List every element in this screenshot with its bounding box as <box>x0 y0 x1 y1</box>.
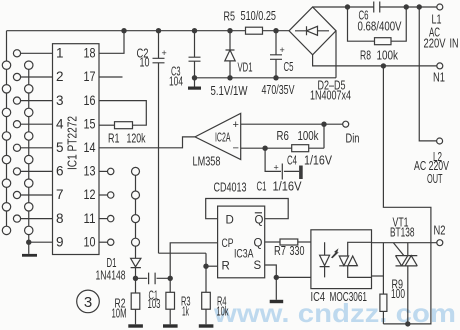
resistor R3 <box>169 278 171 292</box>
svg-text:+: + <box>162 48 167 58</box>
terminal N2 <box>437 240 443 246</box>
IC3 CD4013 body <box>218 206 265 278</box>
wire op-amp minus input to R6 <box>241 147 292 149</box>
svg-text:−: − <box>233 143 239 155</box>
svg-text:1k: 1k <box>182 305 189 319</box>
IC4 MOC3061 body <box>311 230 372 289</box>
svg-text:C1: C1 <box>257 180 267 194</box>
wire pin9 to ground <box>29 242 53 254</box>
capacitor C5 wires <box>275 31 277 78</box>
svg-text:1N4007x4: 1N4007x4 <box>310 89 351 103</box>
wire IC3 S to ground node <box>265 265 277 277</box>
wire left chain vertical <box>6 31 8 234</box>
wire pin3 stub <box>21 100 53 102</box>
capacitor C5 plates <box>270 55 282 60</box>
bridge rectifier D2-D5 outline <box>289 7 336 55</box>
wire ground rail <box>195 77 337 79</box>
wire pin8 stub <box>21 218 53 220</box>
terminal L1 <box>437 4 443 10</box>
svg-text:470/35V: 470/35V <box>262 83 295 97</box>
svg-text:5: 5 <box>56 140 64 155</box>
svg-text:CP: CP <box>222 236 234 250</box>
svg-text:MOC3061: MOC3061 <box>330 290 368 304</box>
svg-text:10M: 10M <box>112 307 127 321</box>
wire R7 to MOC led anode <box>298 241 311 243</box>
svg-text:N2: N2 <box>434 224 446 238</box>
svg-text:+: + <box>280 45 285 55</box>
svg-text:R1: R1 <box>108 132 120 146</box>
svg-text:R5: R5 <box>224 10 236 24</box>
svg-text:10k: 10k <box>217 305 229 319</box>
svg-text:7: 7 <box>56 187 64 202</box>
resistor R7 <box>280 239 298 245</box>
capacitor C1 wires <box>136 277 171 279</box>
svg-text:Din: Din <box>346 132 360 146</box>
svg-text:LM358: LM358 <box>193 155 221 169</box>
wire pin1 stub <box>21 52 53 54</box>
wire R9 bottom to rail <box>382 311 384 324</box>
wire bottom rail MT1 N2 <box>383 243 431 324</box>
svg-text:510/0.25: 510/0.25 <box>241 9 277 23</box>
wire top supply bus <box>7 30 290 32</box>
svg-text:5.1V/1W: 5.1V/1W <box>211 84 248 98</box>
MOC inner triac <box>339 242 371 277</box>
svg-text:1/16V: 1/16V <box>304 154 333 168</box>
terminal Din <box>343 121 349 127</box>
svg-text:3: 3 <box>56 93 64 108</box>
capacitor C4 plate <box>281 164 283 180</box>
capacitor C4 ground bar <box>299 166 303 180</box>
svg-text:IC4: IC4 <box>311 290 326 304</box>
svg-text:8: 8 <box>56 211 64 226</box>
wire pin2 stub <box>21 76 53 78</box>
wire IC3 D to Qbar loop <box>206 199 289 219</box>
wire pin14 to op-amp output <box>99 137 195 148</box>
wire op-amp plus input to Din <box>241 123 343 125</box>
resistor R4 <box>202 292 211 309</box>
wire bridge minus to ground rail <box>335 31 337 78</box>
wire reset branch vertical to R4 <box>205 253 207 292</box>
wire C2 bottom to IC3 reset branch <box>159 252 207 254</box>
capacitor C2 plates <box>153 58 165 63</box>
svg-text:VD1: VD1 <box>238 61 253 75</box>
wire pin5 stub <box>21 147 53 149</box>
svg-text:L1: L1 <box>432 13 442 27</box>
capacitor C2 wires <box>158 31 160 254</box>
svg-text:12: 12 <box>84 187 96 202</box>
ground bars <box>22 87 283 328</box>
resistor R9 <box>380 294 387 311</box>
svg-text:100: 100 <box>391 287 405 301</box>
svg-text:AC 220V: AC 220V <box>414 159 449 173</box>
svg-text:BT138: BT138 <box>390 226 415 240</box>
svg-text:C5: C5 <box>284 60 294 74</box>
svg-text:103: 103 <box>148 297 161 311</box>
svg-text:IC1 PT2272: IC1 PT2272 <box>66 116 80 170</box>
diode D1 <box>131 258 141 278</box>
svg-text:18: 18 <box>84 46 96 61</box>
MOC led symbol <box>320 242 330 277</box>
wire pin4 stub <box>21 123 53 125</box>
wire N1 tap to triac route <box>383 66 431 243</box>
svg-text:+: + <box>233 119 239 131</box>
wire pin16 link <box>99 101 146 126</box>
svg-text:CD4013: CD4013 <box>214 181 247 195</box>
svg-text:17: 17 <box>84 69 96 84</box>
svg-text:Q: Q <box>255 215 264 227</box>
resistor R1 <box>115 122 133 129</box>
connector circles <box>2 50 139 247</box>
svg-text:IC2A: IC2A <box>215 130 231 145</box>
triac VT1 gate lead <box>393 243 403 256</box>
svg-text:IN: IN <box>450 37 459 51</box>
svg-text:C4: C4 <box>287 154 297 168</box>
svg-text:+: + <box>274 163 279 173</box>
capacitor C6 plates <box>374 2 380 13</box>
wire middle chain vertical <box>28 62 30 243</box>
capacitor C3 plates <box>189 57 201 61</box>
svg-text:1: 1 <box>56 46 64 61</box>
svg-text:R: R <box>222 261 230 273</box>
svg-text:9: 9 <box>56 234 64 249</box>
wire pin13 stub <box>99 170 108 172</box>
svg-text:15: 15 <box>84 116 96 131</box>
svg-text:1/16V: 1/16V <box>273 180 303 194</box>
svg-text:3: 3 <box>84 294 92 311</box>
svg-text:S: S <box>254 260 262 272</box>
svg-text:220V: 220V <box>424 37 446 51</box>
wire C1 node to IC3 CP <box>170 243 217 278</box>
svg-text:IC3A: IC3A <box>234 247 254 261</box>
wire pin6 stub <box>21 170 53 172</box>
wire pin15 to R1 <box>99 124 115 126</box>
svg-text:16: 16 <box>84 93 96 108</box>
svg-text:0.68/400V: 0.68/400V <box>358 20 403 34</box>
capacitor C4 wires <box>265 148 299 171</box>
resistor R6 <box>292 145 309 152</box>
svg-text:100k: 100k <box>377 49 399 63</box>
capacitor C3 wires <box>194 31 196 78</box>
resistor R8 <box>375 38 392 45</box>
ground stem under S node <box>275 277 277 299</box>
wire IC3 Q to R7 <box>265 241 280 243</box>
triac VT1 symbol <box>396 243 418 324</box>
wire L1 tap to L2 <box>419 7 436 141</box>
svg-text:11: 11 <box>84 211 96 226</box>
zener VD1 <box>225 31 235 78</box>
IC1 PT2272 body <box>53 44 100 255</box>
svg-text:R7: R7 <box>274 244 286 258</box>
resistor R2 <box>135 278 137 293</box>
wire pin18 to bus <box>99 31 124 54</box>
wire MOC pin6 to gate node <box>372 242 438 244</box>
svg-text:6: 6 <box>56 164 64 179</box>
svg-text:1N4148: 1N4148 <box>96 269 126 283</box>
terminal N1 <box>437 63 443 69</box>
capacitor C1 plates <box>149 273 156 285</box>
svg-text:10: 10 <box>140 56 150 70</box>
svg-text:OUT: OUT <box>427 172 443 186</box>
wire gate node vertical to R9 <box>382 243 384 294</box>
wire ground node to MOC led cathode <box>276 276 311 278</box>
svg-text:13: 13 <box>84 164 96 179</box>
svg-text:D: D <box>226 215 234 227</box>
svg-text:120k: 120k <box>127 132 147 146</box>
wire pin11 stub <box>99 218 108 220</box>
svg-text:10: 10 <box>84 234 96 249</box>
wire data chain vertical to D1 <box>135 167 137 258</box>
svg-text:100k: 100k <box>298 129 320 143</box>
wire mains top line L1 <box>313 6 437 8</box>
MOC light arrow <box>331 248 339 258</box>
svg-text:Q: Q <box>254 238 263 250</box>
resistor R5 <box>246 27 263 34</box>
svg-text:4: 4 <box>56 116 64 131</box>
wire IC3 R pin <box>206 265 218 267</box>
resistor R8 loop wires <box>348 7 407 41</box>
wire bridge bottom to N1 <box>313 55 437 66</box>
svg-text:14: 14 <box>84 140 96 155</box>
wire pin7 stub <box>21 194 53 196</box>
svg-text:104: 104 <box>169 75 183 89</box>
svg-text:2: 2 <box>56 69 64 84</box>
ground under C3 <box>194 78 196 87</box>
svg-text:R6: R6 <box>277 129 289 143</box>
IC3 Qbar overline <box>255 212 262 214</box>
wire R6 right to plus line <box>309 124 324 148</box>
svg-text:R8: R8 <box>360 49 371 63</box>
wire MOC pin4 <box>372 275 384 277</box>
op-amp U1 IC2A triangle <box>195 113 241 159</box>
wire pin10 stub <box>99 241 108 243</box>
terminal L2 <box>437 138 443 144</box>
svg-text:330: 330 <box>290 244 305 258</box>
badge circle 3 <box>77 290 100 313</box>
svg-text:N1: N1 <box>433 71 445 85</box>
wire pin12 stub <box>99 194 108 196</box>
wire pin17 stub <box>99 76 123 78</box>
bridge inner diode <box>295 26 329 35</box>
